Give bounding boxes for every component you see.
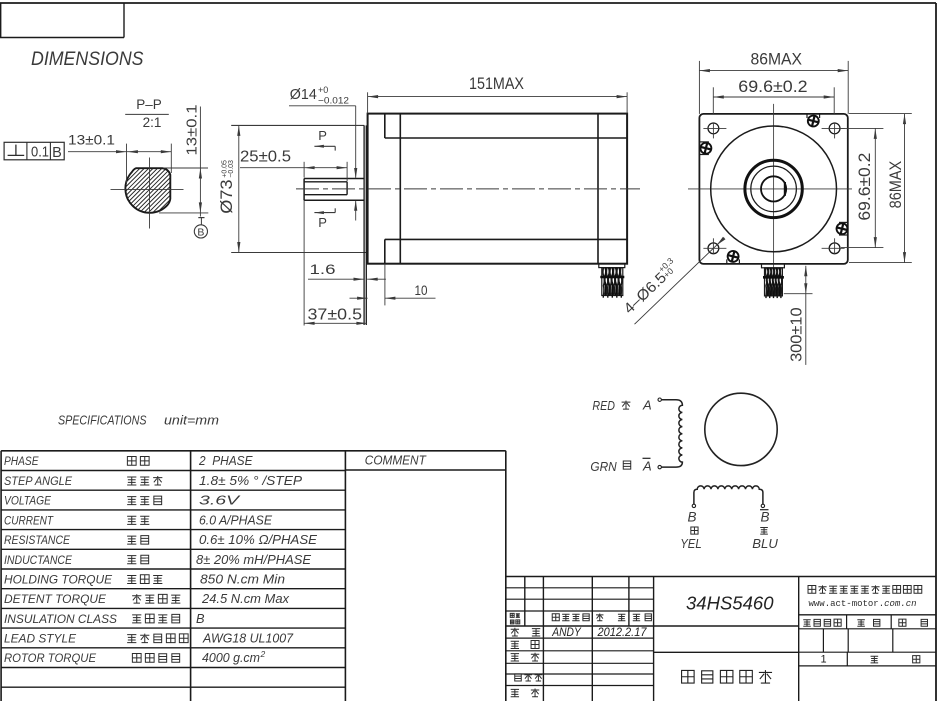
svg-text:INSULATION CLASS: INSULATION CLASS — [4, 612, 118, 626]
svg-text:DIMENSIONS: DIMENSIONS — [31, 49, 144, 70]
svg-text:B: B — [52, 145, 62, 161]
svg-text:24.5 N.cm Max: 24.5 N.cm Max — [201, 591, 290, 606]
svg-text:A: A — [642, 459, 652, 474]
svg-text:86MAX: 86MAX — [751, 50, 803, 69]
svg-text:Ø73: Ø73 — [218, 180, 236, 214]
svg-text:SPECIFICATIONS: SPECIFICATIONS — [58, 412, 147, 427]
svg-text:1: 1 — [821, 654, 827, 666]
svg-text:LEAD STYLE: LEAD STYLE — [4, 632, 77, 646]
svg-text:3.6V: 3.6V — [199, 493, 241, 508]
svg-text:GRN: GRN — [590, 459, 617, 474]
svg-text:DETENT TORQUE: DETENT TORQUE — [4, 592, 107, 606]
svg-text:A: A — [642, 398, 652, 413]
svg-text:RESISTANCE: RESISTANCE — [4, 533, 71, 547]
svg-text:13±0.1: 13±0.1 — [183, 105, 200, 156]
svg-text:850 N.cm Min: 850 N.cm Min — [200, 572, 285, 587]
svg-text:ANDY: ANDY — [551, 625, 581, 639]
svg-text:P: P — [318, 128, 327, 143]
svg-text:www.act-motor.com.cn: www.act-motor.com.cn — [809, 599, 917, 609]
svg-text:VOLTAGE: VOLTAGE — [4, 494, 52, 508]
svg-text:ROTOR TORQUE: ROTOR TORQUE — [4, 651, 97, 665]
svg-text:300±10: 300±10 — [788, 307, 805, 362]
svg-text:69.6±0.2: 69.6±0.2 — [855, 153, 874, 221]
svg-text:INDUCTANCE: INDUCTANCE — [4, 553, 73, 567]
svg-text:2 PHASE: 2 PHASE — [198, 453, 253, 468]
svg-text:B: B — [761, 510, 770, 525]
svg-text:25±0.5: 25±0.5 — [240, 148, 291, 165]
svg-text:151MAX: 151MAX — [469, 74, 524, 93]
svg-text:6.0 A/PHASE: 6.0 A/PHASE — [199, 512, 272, 527]
svg-text:RED: RED — [592, 398, 615, 413]
svg-text:AWG18 UL1007: AWG18 UL1007 — [202, 631, 294, 646]
svg-text:1.8± 5% ° /STEP: 1.8± 5% ° /STEP — [199, 473, 302, 488]
svg-text:BLU: BLU — [752, 536, 778, 551]
svg-text:P: P — [318, 215, 327, 230]
svg-text:HOLDING TORQUE: HOLDING TORQUE — [4, 573, 113, 587]
svg-text:−0.03: −0.03 — [228, 160, 235, 178]
svg-text:B: B — [197, 227, 204, 239]
svg-text:34HS5460: 34HS5460 — [686, 592, 774, 613]
svg-text:+0: +0 — [318, 85, 328, 95]
svg-text:PHASE: PHASE — [4, 454, 39, 468]
svg-text:69.6±0.2: 69.6±0.2 — [738, 78, 807, 96]
svg-text:COMMENT: COMMENT — [365, 454, 427, 468]
svg-text:8± 20% mH/PHASE: 8± 20% mH/PHASE — [196, 552, 311, 567]
svg-text:0.1: 0.1 — [31, 143, 49, 160]
svg-text:B: B — [196, 611, 205, 626]
svg-text:0.6± 10% Ω/PHASE: 0.6± 10% Ω/PHASE — [199, 532, 317, 547]
svg-text:10: 10 — [415, 282, 428, 298]
svg-text:YEL: YEL — [680, 536, 702, 551]
svg-text:13±0.1: 13±0.1 — [68, 132, 115, 148]
svg-text:unit=mm: unit=mm — [164, 413, 219, 427]
svg-text:STEP ANGLE: STEP ANGLE — [4, 474, 73, 488]
svg-text:2012.2.17: 2012.2.17 — [597, 625, 648, 639]
svg-text:P–P: P–P — [136, 97, 162, 112]
svg-text:86MAX: 86MAX — [886, 161, 905, 209]
svg-text:4000 g.cm: 4000 g.cm — [202, 650, 260, 665]
svg-text:2:1: 2:1 — [143, 115, 162, 130]
svg-text:−0.012: −0.012 — [318, 96, 349, 107]
svg-text:1.6: 1.6 — [310, 261, 336, 277]
svg-text:Ø14: Ø14 — [290, 86, 317, 103]
svg-text:37±0.5: 37±0.5 — [308, 307, 363, 324]
svg-text:CURRENT: CURRENT — [4, 513, 54, 527]
svg-text:2: 2 — [260, 649, 266, 659]
svg-text:B: B — [688, 510, 697, 525]
